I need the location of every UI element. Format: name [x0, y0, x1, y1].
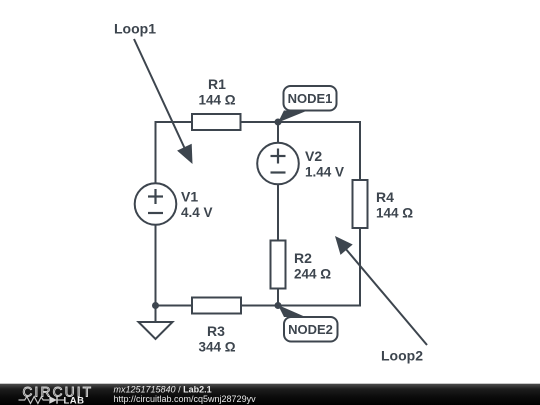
- resistor R2: [271, 241, 286, 289]
- wire top-left horizontal (left corner to R1): [156, 121, 193, 123]
- svg-text:R1: R1: [208, 76, 226, 92]
- svg-text:http://circuitlab.com/cq5wnj28: http://circuitlab.com/cq5wnj28729yv: [114, 394, 257, 404]
- plus sign V1: [148, 195, 163, 197]
- node NODE1 callout tail: [278, 111, 308, 123]
- wire middle vertical lower (R2 bottom to NODE2): [277, 289, 279, 306]
- node NODE2 callout tail: [278, 305, 306, 317]
- wire bottom-right horizontal (R3 to bottom-right corner): [241, 305, 361, 307]
- annotation arrow Loop1 head: [177, 144, 192, 164]
- node NODE2 callout box: [284, 317, 338, 342]
- wire left vertical lower (V1 bottom to bottom wire): [155, 225, 157, 306]
- voltage source V2: [257, 143, 299, 185]
- svg-text:V1: V1: [181, 189, 198, 205]
- svg-text:R3: R3: [207, 323, 225, 339]
- svg-text:144 Ω: 144 Ω: [376, 206, 413, 221]
- svg-text:4.4 V: 4.4 V: [181, 205, 213, 220]
- annotation arrow Loop1 line: [134, 39, 185, 149]
- svg-text:NODE1: NODE1: [288, 91, 333, 106]
- svg-text:1.44 V: 1.44 V: [305, 165, 344, 180]
- annotation arrow Loop2 head: [335, 236, 353, 255]
- wire middle vertical upper (NODE1 to V2 top): [277, 122, 279, 143]
- junction dot ground node: [152, 302, 159, 309]
- svg-text:R2: R2: [294, 250, 312, 266]
- footer logo diode triangle: [49, 396, 57, 403]
- wire right vertical upper (corner to R4 top): [359, 121, 361, 180]
- ground: [139, 322, 173, 339]
- svg-text:R4: R4: [376, 189, 394, 205]
- minus sign V2: [271, 171, 286, 173]
- node NODE1 callout box: [284, 86, 337, 111]
- footer logo wire after diode: [57, 399, 64, 401]
- svg-text:244 Ω: 244 Ω: [294, 267, 331, 282]
- svg-text:344 Ω: 344 Ω: [198, 340, 235, 355]
- svg-text:mx1251715840 / Lab2.1: mx1251715840 / Lab2.1: [114, 385, 212, 395]
- wire right vertical lower (R4 bottom to bottom corner): [359, 228, 361, 307]
- annotation arrow Loop2 line: [345, 248, 427, 345]
- footer logo wire with resistor zigzag: [19, 397, 50, 404]
- footer logo diode bar: [56, 396, 58, 403]
- plus sign V2: [271, 155, 286, 157]
- svg-text:Loop2: Loop2: [381, 348, 423, 364]
- junction dot NODE2: [275, 302, 282, 309]
- svg-text:144 Ω: 144 Ω: [198, 93, 235, 108]
- svg-text:NODE2: NODE2: [288, 322, 333, 337]
- resistor R4: [353, 180, 368, 228]
- minus sign V1: [148, 212, 163, 214]
- svg-text:Loop1: Loop1: [114, 21, 156, 37]
- resistor R1: [192, 114, 241, 130]
- wire left vertical upper (corner to V1 top): [155, 121, 157, 183]
- wire middle vertical mid (V2 bottom to R2 top): [277, 184, 279, 241]
- junction dot NODE1: [275, 119, 282, 126]
- svg-text:LAB: LAB: [64, 396, 85, 405]
- wire top-right horizontal (R1 to right corner): [241, 121, 361, 123]
- wire ground stub: [155, 306, 157, 323]
- wire bottom-left horizontal (ground node to R3): [155, 305, 193, 307]
- resistor R3: [192, 298, 241, 314]
- footer bar: [0, 384, 540, 405]
- svg-text:V2: V2: [305, 148, 322, 164]
- voltage source V1: [135, 183, 177, 225]
